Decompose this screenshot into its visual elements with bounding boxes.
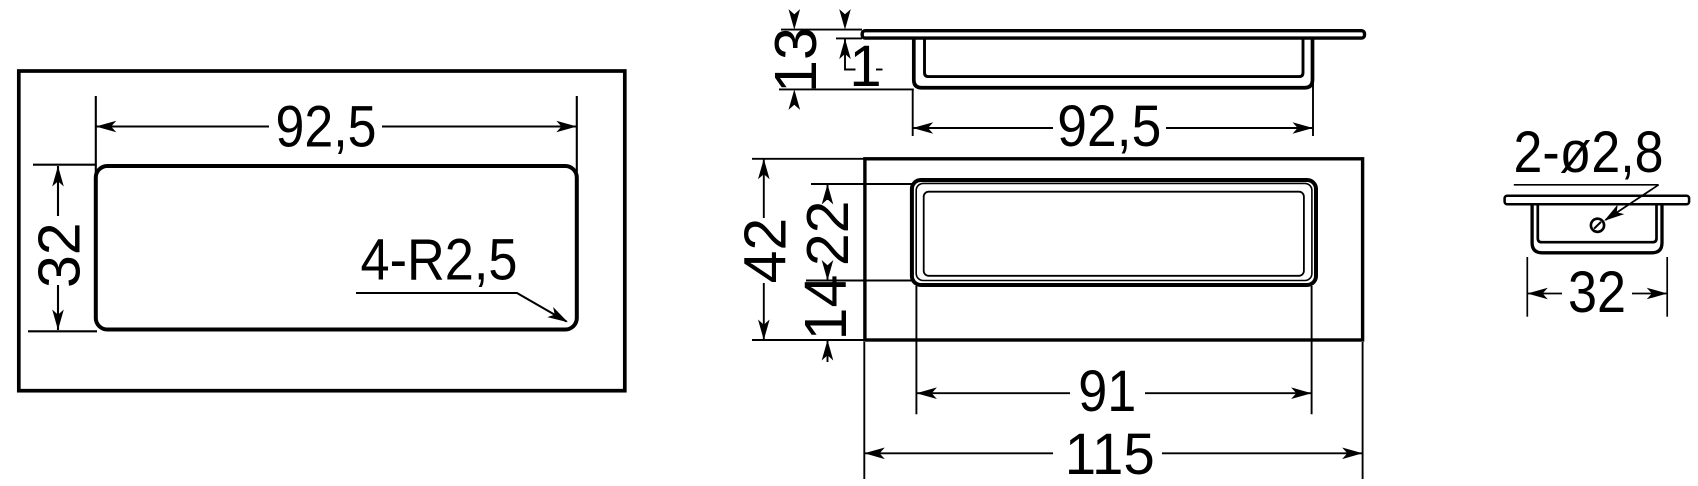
- dimension 14 (front view): [827, 341, 829, 363]
- arrow of 2-ø2,8 leader: [1601, 205, 1624, 226]
- extension line bottom y=331.3: [28, 330, 97, 332]
- recess inner thin rounded rect: [924, 192, 1304, 276]
- dash right of text 1: [876, 69, 883, 71]
- tray inner wall lines: [925, 38, 1304, 77]
- left view outer rectangle (panel): [19, 71, 625, 391]
- dimension line segments: [57, 166, 59, 216]
- svg-text:91: 91: [1078, 359, 1136, 424]
- extension line top y=166: [33, 164, 96, 166]
- extension line y=280.3: [806, 280, 912, 282]
- arrow up at bottom of 13: [789, 89, 801, 110]
- dimension line segments: [864, 452, 1053, 454]
- dimension 32 (left view): [28, 165, 97, 332]
- dimension line segments: [916, 392, 1070, 394]
- svg-text:1: 1: [849, 34, 881, 99]
- arrow shaft below y=339.5: [827, 341, 829, 363]
- svg-text:115: 115: [1065, 422, 1155, 486]
- arrow down at top of 13: [789, 9, 801, 30]
- svg-text:13: 13: [763, 27, 829, 93]
- arrow top of 32: [52, 166, 64, 187]
- arrow left of 115: [864, 448, 885, 460]
- arrow left of top 92,5: [913, 122, 934, 134]
- svg-text:42: 42: [732, 218, 798, 284]
- extension line x=1311.6: [1311, 286, 1313, 414]
- dimension line segments: [1527, 293, 1562, 295]
- recess middle thin rounded rect: [916, 183, 1312, 280]
- extension line x=1527.3: [1526, 257, 1528, 317]
- svg-text:22: 22: [795, 200, 861, 266]
- extension line y=88.4: [779, 88, 914, 90]
- extension line x=1667.2: [1666, 257, 1668, 317]
- screw hole circle: [1591, 219, 1604, 232]
- extension line x=863.5: [863, 342, 865, 479]
- arrow down at top of 1: [839, 9, 851, 30]
- arrow right of top 92,5: [1293, 122, 1314, 134]
- extension line y=36.9: [836, 37, 862, 39]
- svg-text:32: 32: [27, 222, 93, 288]
- svg-text:14: 14: [793, 275, 859, 341]
- svg-text:2-ø2,8: 2-ø2,8: [1514, 120, 1664, 185]
- dimension line segments: [96, 125, 269, 127]
- arrow right of 115: [1342, 448, 1363, 460]
- tray outer profile: [914, 38, 1313, 88]
- dimension 92,5 (left view): [96, 96, 577, 182]
- extension line y=339.5 (shared with 14): [752, 339, 865, 341]
- extension line y=158.5: [752, 158, 865, 160]
- extension line x=916.4: [915, 286, 917, 414]
- flange profile bar: [862, 31, 1364, 38]
- diagonal leader line: [1606, 185, 1659, 220]
- arrow shaft + hook below: [845, 39, 856, 70]
- dimension line segments: [913, 127, 1053, 129]
- dimension line segments: [827, 184, 829, 200]
- arrow left of 91: [916, 387, 937, 399]
- arrow of 4-R2,5 leader: [547, 307, 571, 327]
- arrow top of 22: [822, 184, 834, 205]
- arrow left of right-view 32: [1527, 288, 1548, 300]
- extension line right x=576.8: [576, 96, 578, 172]
- front view outer rectangle (flange face): [865, 159, 1363, 340]
- dimension 92,5 (top view): [913, 80, 1313, 136]
- extension line y=184.8: [811, 183, 912, 185]
- extension line x=913.5: [912, 90, 914, 137]
- left view cutout rounded rectangle: [96, 166, 577, 330]
- extension line x=1362.3: [1362, 342, 1364, 479]
- leader 4-R2,5: [356, 293, 567, 322]
- dimension line segments: [763, 159, 765, 218]
- arrow right of 91: [1291, 387, 1312, 399]
- arrow bottom of 22: [822, 260, 834, 281]
- arrow up at bottom of 14: [822, 340, 834, 361]
- dimension 13 (top view): [779, 30, 914, 90]
- svg-text:32: 32: [1568, 260, 1626, 325]
- arrow right of 92,5: [556, 121, 577, 133]
- dimension 32 (right view): [1527, 257, 1667, 317]
- arrow top of 42: [758, 159, 770, 180]
- dimension 1 (top view): [836, 38, 883, 69]
- screw slot line: [1594, 222, 1601, 229]
- right view tray outer profile: [1532, 204, 1662, 253]
- leader 2-ø2,8: [1514, 185, 1659, 220]
- dimension 42 (front view): [752, 159, 865, 340]
- extension line y=29.5: [781, 29, 862, 31]
- svg-text:92,5: 92,5: [1057, 94, 1161, 159]
- right view flange bar: [1505, 196, 1690, 204]
- svg-text:92,5: 92,5: [276, 95, 377, 160]
- arrow left of 92,5: [96, 121, 117, 133]
- arrow bottom of 32: [52, 310, 64, 331]
- recess opening thick rounded rect: [912, 180, 1316, 285]
- arrow up at bottom of 1: [839, 39, 851, 60]
- arrow right of right-view 32: [1647, 288, 1668, 300]
- svg-text:4-R2,5: 4-R2,5: [361, 227, 518, 292]
- dimension 115 (front view): [864, 342, 1362, 479]
- arrow bottom of 42: [758, 320, 770, 341]
- extension line x=1312.8: [1312, 80, 1314, 136]
- right view tray inner wall lines: [1538, 204, 1657, 242]
- dimension 91 (front view): [916, 286, 1311, 414]
- extension line left x=95.8: [95, 96, 97, 182]
- underline of text: [1514, 184, 1659, 186]
- dimension 22 (front view): [806, 184, 912, 281]
